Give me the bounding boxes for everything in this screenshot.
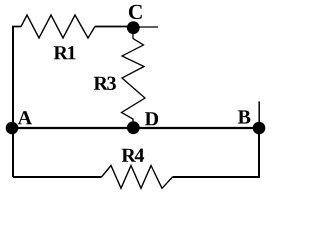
label B [238, 110, 251, 123]
node B [253, 122, 266, 135]
resistor R1 [21, 15, 95, 38]
wire top-left lead [12, 26, 21, 28]
label C [129, 5, 142, 19]
wire stub right of C [133, 26, 158, 28]
wire stub above B [258, 101, 260, 128]
node D [127, 121, 140, 134]
wire left rail [12, 27, 14, 178]
wire R1 to node C [95, 26, 133, 28]
wire right rail B to bottom [258, 128, 260, 177]
wire bottom right [173, 176, 261, 178]
label R3 [94, 77, 116, 90]
node C [127, 21, 140, 34]
label D [145, 112, 158, 125]
wire bottom left [13, 176, 102, 178]
label R1 [54, 46, 76, 59]
resistor R4 [102, 166, 173, 189]
label A [18, 111, 32, 124]
wire A to B [13, 127, 259, 129]
label R4 [122, 149, 145, 162]
node A [6, 122, 19, 135]
resistor R3 [122, 31, 146, 127]
